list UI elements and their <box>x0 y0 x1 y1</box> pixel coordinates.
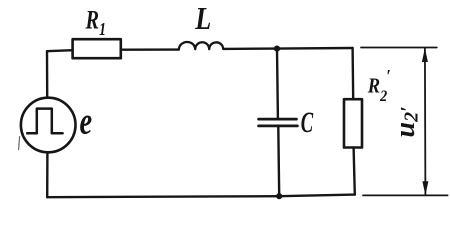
svg-text:R2′: R2′ <box>367 66 391 105</box>
wire: top-left vertical from source to top rail <box>46 51 49 98</box>
svg-text:L: L <box>194 2 211 37</box>
wire: source bottom lead <box>46 152 49 197</box>
wire: top rail left segment to R1 <box>47 50 73 51</box>
svg-text:u2′: u2′ <box>390 106 423 137</box>
resistor R1 <box>73 39 121 58</box>
svg-text:e: e <box>80 101 93 143</box>
wire: capacitor top lead <box>276 49 279 119</box>
wire: bottom rail <box>47 195 355 198</box>
node A (top junction dot) <box>274 46 280 52</box>
node B (bottom junction dot) <box>276 193 282 199</box>
wire: R1 to inductor <box>121 48 179 51</box>
wire: right vertical, corner to R2' <box>351 48 354 99</box>
svg-text:R1: R1 <box>85 6 106 39</box>
dimension arrow vertical line <box>424 49 427 195</box>
svg-text:C: C <box>301 107 314 139</box>
wire: inductor to node A <box>223 47 277 50</box>
source pulse waveform <box>27 109 62 134</box>
dimension arrowhead up <box>422 48 428 62</box>
wire: node A to top-right corner <box>277 47 353 50</box>
inductor L <box>179 42 223 50</box>
source e (circle) <box>21 98 76 153</box>
capacitor C bottom plate <box>259 125 298 128</box>
wire: R2' to bottom rail <box>354 148 355 195</box>
capacitor C top plate <box>259 118 297 121</box>
dimension arrow top cap <box>361 47 437 49</box>
dimension arrowhead down <box>422 181 428 195</box>
stray pen tick lower-left of source <box>19 137 20 150</box>
dimension arrow bottom cap <box>363 194 448 196</box>
resistor R2' <box>344 99 362 147</box>
wire: capacitor bottom lead <box>277 127 280 197</box>
